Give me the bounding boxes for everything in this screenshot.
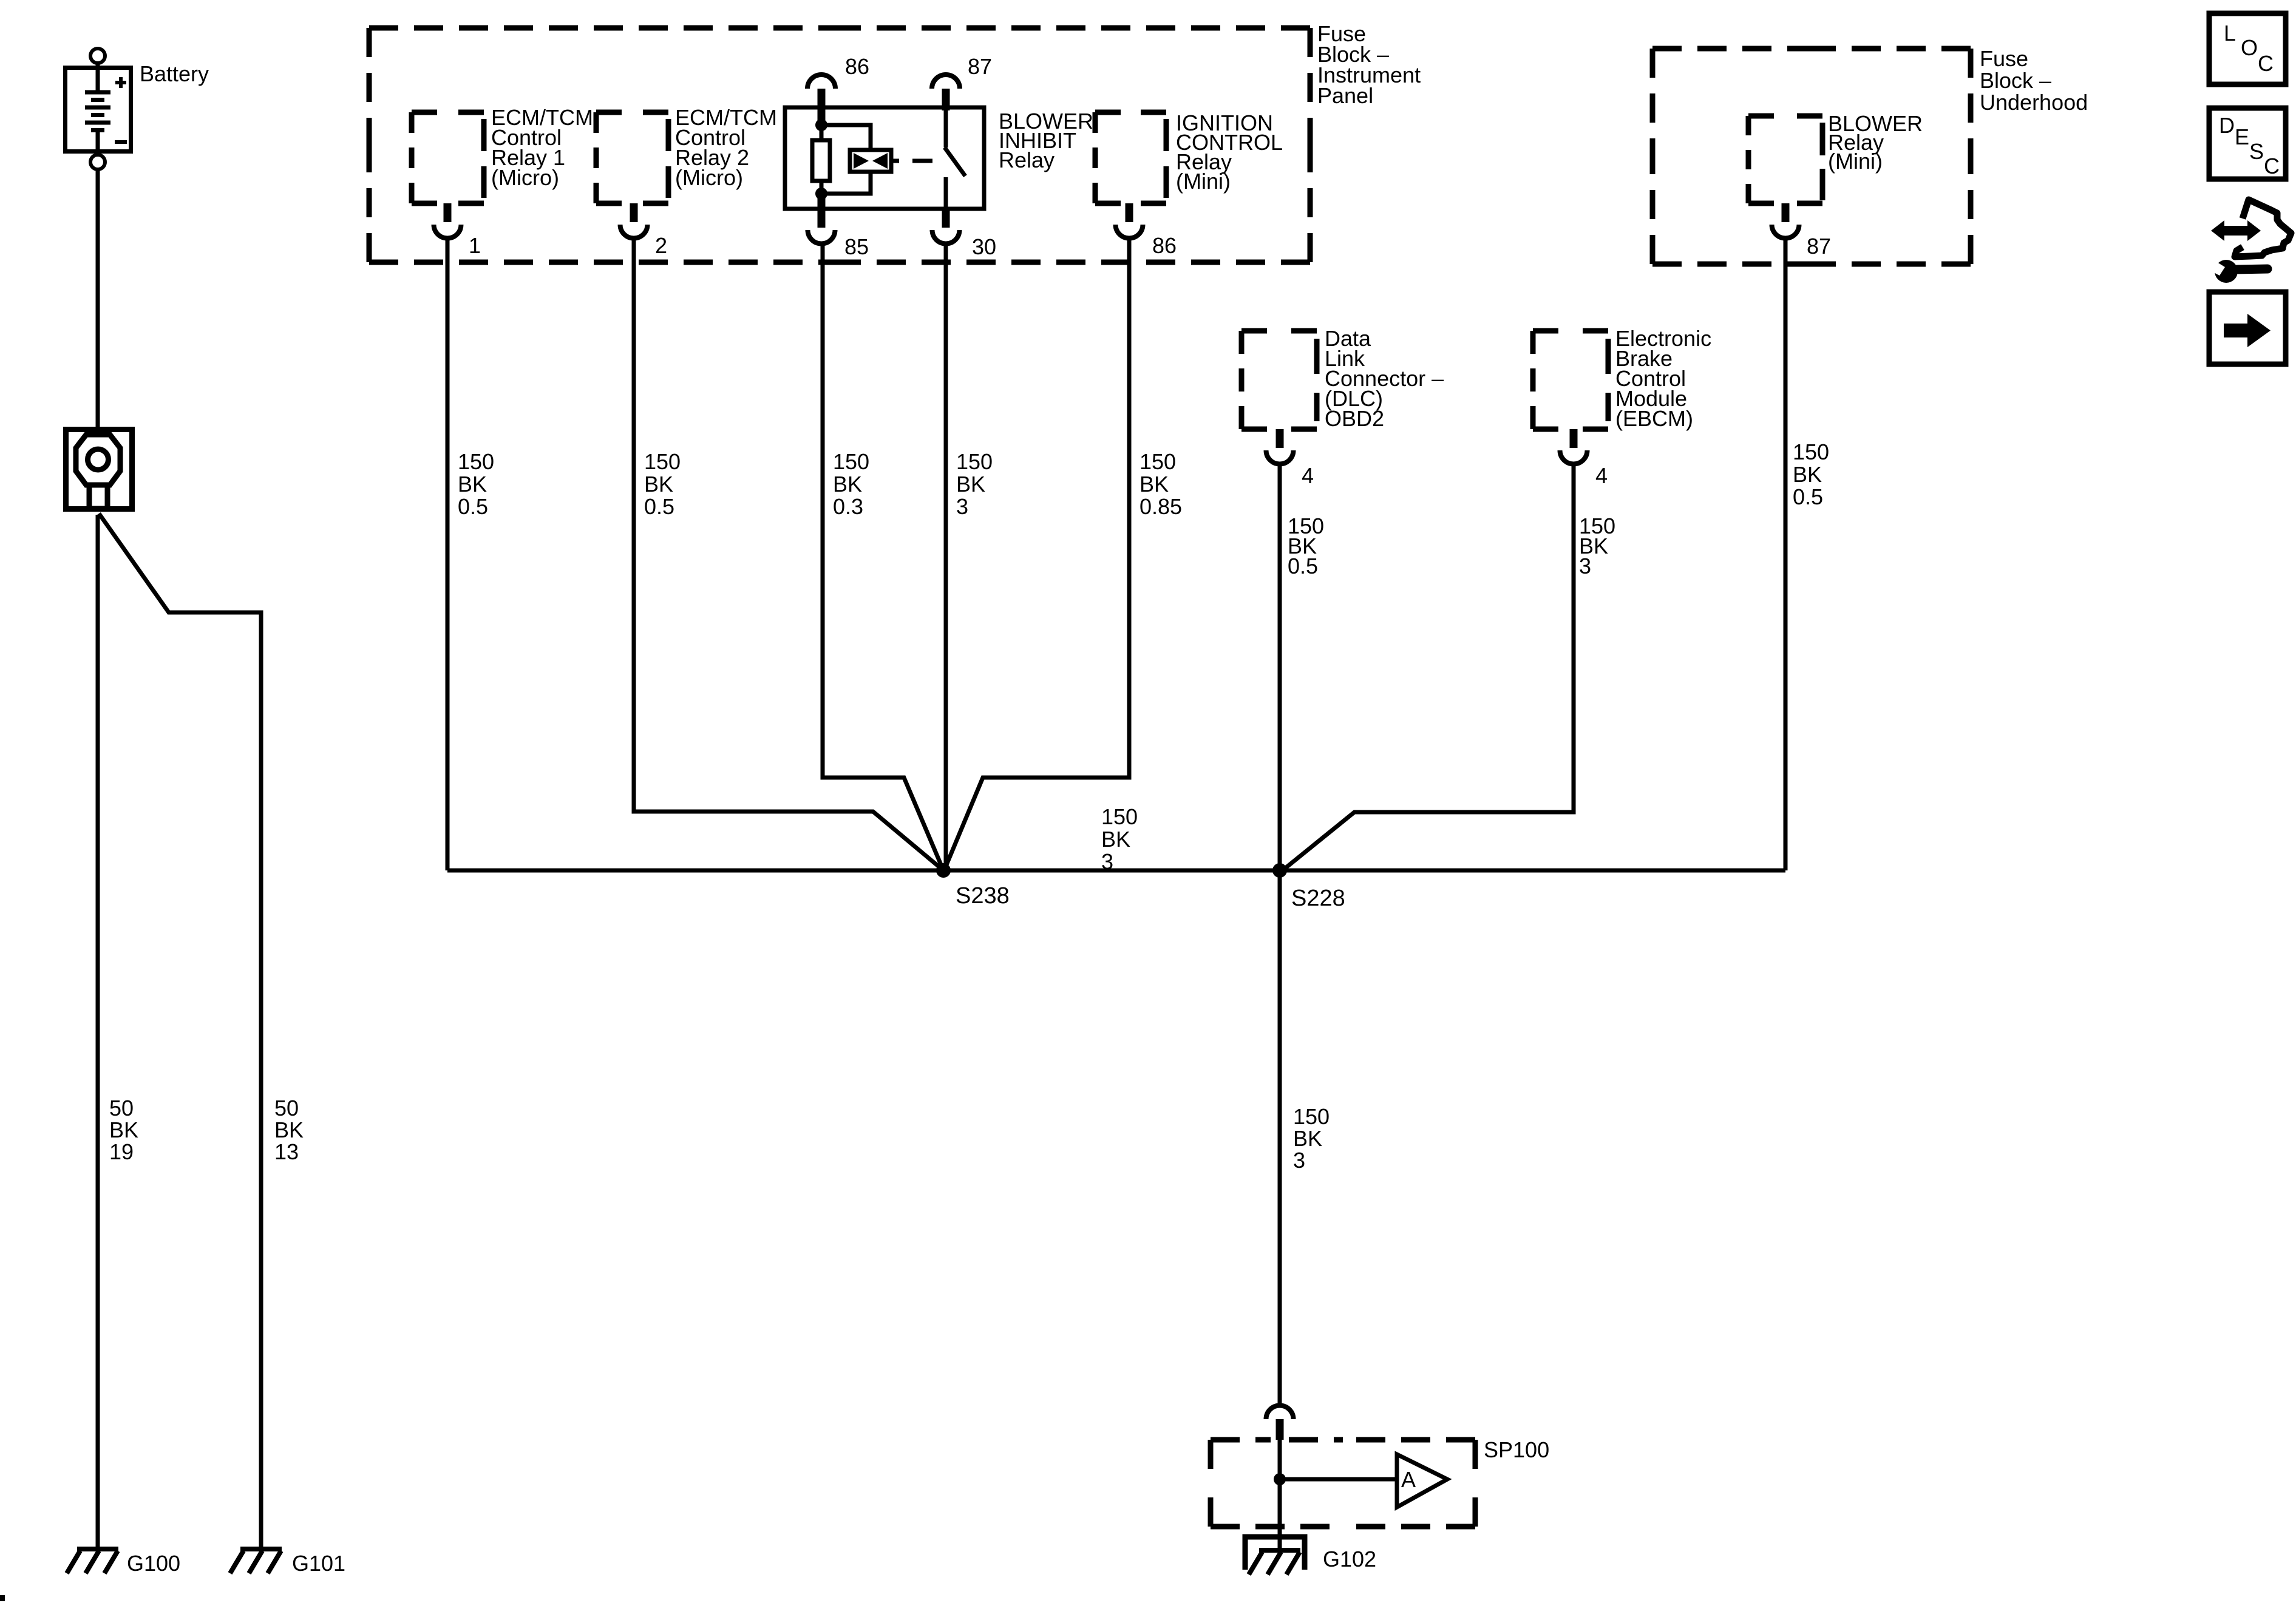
svg-text:(Mini): (Mini) (1176, 169, 1231, 194)
svg-text:C: C (2258, 51, 2274, 76)
svg-text:L: L (2224, 21, 2236, 46)
svg-text:G101: G101 (292, 1551, 345, 1576)
svg-text:4: 4 (1595, 463, 1608, 488)
svg-text:O: O (2241, 35, 2258, 60)
svg-text:BK: BK (109, 1117, 138, 1142)
svg-text:150: 150 (833, 449, 869, 474)
svg-text:3: 3 (1293, 1148, 1305, 1173)
svg-text:150: 150 (1293, 1104, 1330, 1129)
svg-text:Block –: Block – (1980, 68, 2051, 93)
svg-text:86: 86 (1152, 233, 1177, 258)
svg-text:BK: BK (644, 472, 673, 497)
svg-text:G102: G102 (1323, 1547, 1376, 1571)
svg-text:3: 3 (1579, 554, 1591, 578)
svg-text:BK: BK (458, 472, 487, 497)
svg-text:A: A (1401, 1467, 1416, 1492)
svg-text:C: C (2264, 154, 2280, 178)
svg-text:Relay: Relay (999, 147, 1055, 172)
svg-text:0.5: 0.5 (644, 494, 674, 519)
svg-text:3: 3 (956, 494, 968, 519)
svg-text:D: D (2219, 113, 2235, 138)
svg-text:BK: BK (833, 472, 862, 497)
svg-text:19: 19 (109, 1139, 134, 1164)
svg-text:86: 86 (845, 54, 869, 79)
svg-text:30: 30 (972, 234, 996, 259)
svg-text:Panel: Panel (1317, 83, 1373, 108)
svg-text:150: 150 (956, 449, 993, 474)
svg-text:(Micro): (Micro) (675, 165, 743, 190)
svg-text:Fuse: Fuse (1980, 46, 2028, 71)
svg-text:(EBCM): (EBCM) (1615, 406, 1693, 431)
svg-text:150: 150 (644, 449, 681, 474)
svg-text:S: S (2249, 139, 2264, 164)
svg-text:150: 150 (1101, 804, 1138, 829)
svg-text:87: 87 (968, 54, 992, 79)
svg-text:150: 150 (1793, 439, 1829, 464)
svg-text:50: 50 (109, 1096, 134, 1120)
svg-text:50: 50 (274, 1096, 299, 1120)
svg-text:BK: BK (1293, 1126, 1322, 1151)
svg-text:0.85: 0.85 (1140, 494, 1182, 519)
svg-text:150: 150 (458, 449, 494, 474)
svg-text:Battery: Battery (140, 61, 209, 86)
svg-text:150: 150 (1140, 449, 1176, 474)
svg-text:SP100: SP100 (1484, 1437, 1549, 1462)
svg-text:1: 1 (469, 233, 481, 258)
svg-text:85: 85 (844, 234, 869, 259)
svg-text:BK: BK (1793, 462, 1822, 487)
svg-text:(Mini): (Mini) (1828, 149, 1883, 174)
svg-text:S238: S238 (956, 883, 1010, 909)
svg-text:S228: S228 (1291, 886, 1345, 911)
svg-text:87: 87 (1807, 234, 1831, 259)
svg-text:BK: BK (1101, 827, 1130, 852)
svg-text:4: 4 (1302, 463, 1314, 488)
svg-text:G100: G100 (127, 1551, 180, 1576)
svg-text:BK: BK (956, 472, 985, 497)
svg-text:BK: BK (274, 1117, 304, 1142)
svg-text:13: 13 (274, 1139, 299, 1164)
svg-text:0.5: 0.5 (1793, 484, 1823, 509)
svg-text:3: 3 (1101, 849, 1113, 874)
svg-text:(Micro): (Micro) (491, 165, 559, 190)
svg-text:E: E (2235, 124, 2249, 149)
svg-text:0.5: 0.5 (1288, 554, 1318, 578)
svg-text:OBD2: OBD2 (1325, 406, 1384, 431)
svg-text:0.5: 0.5 (458, 494, 488, 519)
svg-text:0.3: 0.3 (833, 494, 863, 519)
svg-text:2: 2 (655, 233, 667, 258)
svg-text:BK: BK (1140, 472, 1169, 497)
svg-text:Underhood: Underhood (1980, 90, 2088, 115)
